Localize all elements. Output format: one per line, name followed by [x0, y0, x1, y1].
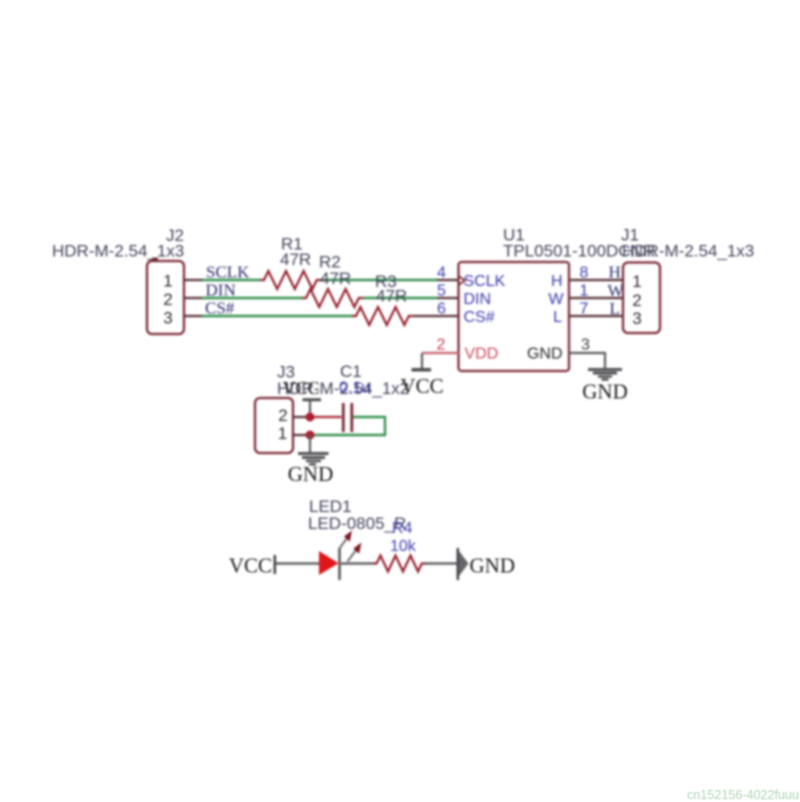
svg-text:H: H: [609, 263, 621, 282]
svg-text:GND: GND: [527, 346, 563, 363]
svg-text:47R: 47R: [376, 287, 407, 306]
svg-text:GND: GND: [470, 554, 516, 578]
svg-text:HDR-M-2.54_1x3: HDR-M-2.54_1x3: [52, 242, 184, 261]
svg-text:3: 3: [581, 337, 590, 354]
svg-text:DIN: DIN: [464, 291, 492, 308]
svg-text:VDD: VDD: [465, 346, 499, 363]
svg-text:SCLK: SCLK: [464, 273, 506, 290]
svg-text:W: W: [608, 281, 625, 300]
svg-text:GND: GND: [582, 380, 628, 404]
svg-text:DIN: DIN: [206, 281, 236, 300]
svg-text:L: L: [610, 299, 620, 318]
svg-text:2: 2: [278, 406, 287, 425]
svg-text:CS#: CS#: [205, 299, 235, 318]
svg-text:2: 2: [437, 337, 446, 354]
svg-text:3: 3: [632, 309, 641, 328]
svg-text:H: H: [551, 273, 563, 290]
svg-text:SCLK: SCLK: [206, 263, 250, 282]
svg-text:7: 7: [580, 301, 589, 318]
svg-text:VCC: VCC: [282, 378, 319, 398]
svg-text:6: 6: [437, 301, 446, 318]
svg-text:1: 1: [163, 272, 172, 291]
svg-text:GND: GND: [288, 462, 334, 486]
svg-text:2: 2: [632, 291, 641, 310]
svg-text:8: 8: [580, 265, 589, 282]
svg-text:3: 3: [163, 309, 172, 328]
svg-text:1: 1: [632, 272, 641, 291]
svg-text:HDR-M-2.54_1x3: HDR-M-2.54_1x3: [622, 242, 754, 261]
svg-text:CS#: CS#: [464, 309, 495, 326]
svg-text:47R: 47R: [320, 269, 351, 288]
svg-text:L: L: [553, 309, 562, 326]
svg-text:VCC: VCC: [229, 554, 272, 578]
svg-text:47R: 47R: [280, 250, 311, 269]
svg-text:1: 1: [278, 424, 287, 443]
svg-text:10k: 10k: [390, 538, 417, 555]
svg-text:R4: R4: [392, 520, 413, 537]
svg-text:5: 5: [437, 283, 446, 300]
svg-text:W: W: [548, 291, 564, 308]
svg-text:1: 1: [580, 283, 589, 300]
svg-text:4: 4: [437, 265, 446, 282]
svg-text:C1: C1: [340, 362, 362, 381]
svg-text:0.1u: 0.1u: [339, 380, 370, 397]
svg-text:2: 2: [163, 290, 172, 309]
